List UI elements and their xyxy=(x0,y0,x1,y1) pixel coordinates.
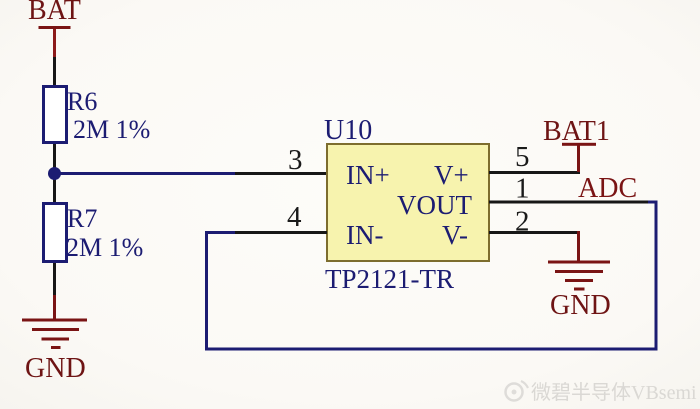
power flag BAT1 bar xyxy=(562,143,596,146)
svg-text:3: 3 xyxy=(288,144,303,176)
pin 1 stub wire (VOUT) xyxy=(489,201,648,204)
svg-text:R7: R7 xyxy=(67,204,97,233)
svg-text:2M 1%: 2M 1% xyxy=(73,115,150,144)
svg-text:微碧半导体VBsemi: 微碧半导体VBsemi xyxy=(531,381,697,404)
ground GND (right) bars xyxy=(548,261,610,291)
wire BAT to R6 xyxy=(53,57,56,86)
wire feedback loop: left vertical xyxy=(205,231,208,350)
svg-text:TP2121-TR: TP2121-TR xyxy=(325,264,454,294)
svg-text:U10: U10 xyxy=(324,115,372,146)
ground GND (left) xyxy=(22,319,87,350)
wire VOUT to right vertical (net ADC) xyxy=(648,201,658,204)
svg-text:BAT1: BAT1 xyxy=(543,116,610,147)
svg-text:BAT: BAT xyxy=(28,0,81,26)
svg-text:2: 2 xyxy=(515,206,530,238)
op-amp U10 body xyxy=(327,144,489,261)
svg-text:GND: GND xyxy=(550,290,611,321)
resistor R7 xyxy=(44,204,67,262)
svg-text:4: 4 xyxy=(287,201,302,233)
wire feedback corner to pin 4 xyxy=(205,231,235,234)
svg-text:R6: R6 xyxy=(67,87,97,116)
svg-text:GND: GND xyxy=(25,353,86,384)
junction node dot xyxy=(48,167,61,180)
svg-text:IN-: IN- xyxy=(346,220,383,250)
wire feedback loop: bottom horizontal xyxy=(205,348,657,351)
wire R7 to ground xyxy=(53,263,56,295)
wire R6 to junction xyxy=(53,144,56,202)
ground GND (right) stem xyxy=(577,231,580,261)
wire junction to pin 3 (net) xyxy=(54,172,235,175)
svg-text:VOUT: VOUT xyxy=(397,190,472,220)
svg-text:V+: V+ xyxy=(434,160,469,190)
power flag BAT label xyxy=(28,0,81,26)
pin 3 stub wire xyxy=(235,172,326,175)
svg-text:1: 1 xyxy=(515,173,530,205)
resistor R6 xyxy=(44,87,67,143)
svg-text:V-: V- xyxy=(442,220,468,250)
pin 5 stub wire xyxy=(489,171,580,174)
wire feedback loop: right vertical xyxy=(655,201,658,351)
svg-text:2M 1%: 2M 1% xyxy=(66,233,143,262)
svg-text:ADC: ADC xyxy=(578,173,637,204)
power flag BAT bar symbol xyxy=(39,26,71,57)
watermark logo xyxy=(506,381,529,401)
pin 2 stub wire xyxy=(489,231,578,234)
power flag BAT1 stem xyxy=(577,144,580,172)
pin 4 stub wire xyxy=(235,231,327,234)
svg-text:IN+: IN+ xyxy=(346,160,390,190)
svg-text:5: 5 xyxy=(515,141,530,173)
